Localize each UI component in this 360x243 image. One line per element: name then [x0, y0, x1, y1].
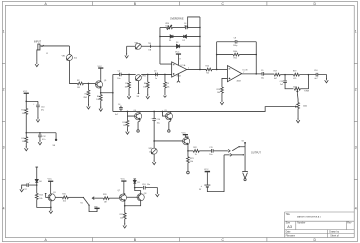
- capacitor C18: [135, 186, 145, 190]
- wire Q7 emitter: [124, 202, 126, 206]
- transistor Q6: [183, 137, 190, 146]
- svg-text:1: 1: [355, 30, 357, 34]
- svg-text:7k5: 7k5: [206, 72, 209, 74]
- svg-text:10u: 10u: [157, 122, 160, 124]
- ground R15: [24, 146, 28, 151]
- svg-text:47p: 47p: [184, 25, 187, 27]
- pot P1 (input): [66, 54, 72, 60]
- svg-text:S1: S1: [80, 203, 82, 205]
- wire R22 to C11: [199, 150, 211, 152]
- wire Q3 to R25: [55, 196, 62, 198]
- svg-text:C8: C8: [234, 37, 236, 39]
- svg-text:C3: C3: [154, 70, 156, 72]
- svg-text:C2: C2: [118, 70, 120, 72]
- svg-text:Number: Number: [297, 222, 305, 225]
- svg-text:4n7: 4n7: [314, 78, 317, 80]
- wire arrow to R26: [93, 197, 103, 199]
- ground R27: [123, 223, 127, 228]
- op-amp IC1B: [227, 66, 241, 82]
- svg-text:D2: D2: [182, 40, 184, 42]
- pot P2: [135, 75, 141, 81]
- title block: [285, 212, 355, 238]
- svg-text:C14: C14: [157, 119, 160, 121]
- wire C9 to R17: [264, 73, 275, 76]
- svg-text:R19: R19: [293, 71, 296, 73]
- wire VCC to collector: [100, 68, 102, 80]
- svg-text:Date: Date: [286, 231, 292, 234]
- svg-text:VCC: VCC: [121, 178, 126, 180]
- wire IC1B output: [242, 73, 262, 75]
- transistor Q1: [95, 80, 102, 89]
- VB end R9: [163, 96, 166, 98]
- ground input jack: [37, 50, 38, 62]
- svg-text:4u7: 4u7: [115, 114, 118, 116]
- svg-text:10n: 10n: [147, 184, 150, 186]
- svg-text:Q1: Q1: [104, 80, 107, 82]
- feedback rail right: [199, 17, 201, 69]
- resistor R16: [221, 87, 224, 93]
- svg-text:C16: C16: [314, 70, 317, 72]
- svg-text:R4: R4: [97, 96, 99, 98]
- svg-text:3: 3: [3, 146, 5, 150]
- svg-text:C4: C4: [118, 104, 120, 106]
- svg-text:47u: 47u: [42, 139, 45, 141]
- svg-text:S2: S2: [241, 140, 243, 142]
- resistor R15: [25, 137, 28, 143]
- svg-text:1u: 1u: [155, 78, 157, 80]
- svg-text:10k: 10k: [217, 92, 220, 94]
- wire R10 to IC1B: [212, 68, 228, 70]
- switch S2: [232, 147, 238, 151]
- svg-text:R22: R22: [193, 147, 196, 149]
- svg-text:VCC: VCC: [47, 179, 52, 181]
- svg-text:D3: D3: [176, 42, 178, 44]
- svg-text:4k7: 4k7: [274, 78, 277, 80]
- svg-text:Q4: Q4: [133, 110, 136, 112]
- wire input to pot: [42, 46, 69, 55]
- capacitor C13 node branch: [284, 75, 286, 81]
- wire D6 down: [36, 182, 38, 193]
- capacitor C14: [153, 111, 155, 118]
- svg-text:VR1: VR1: [62, 56, 66, 58]
- svg-text:C13: C13: [280, 81, 283, 83]
- wire IC1A output: [187, 68, 206, 70]
- resistor R9: [164, 74, 166, 82]
- resistor R2: [77, 82, 83, 85]
- ground R3: [87, 104, 91, 109]
- wire +input IC1B down: [222, 78, 228, 87]
- ground R8: [146, 94, 150, 99]
- svg-text:OUTPUT: OUTPUT: [251, 151, 261, 154]
- diode D6: [35, 179, 38, 182]
- resistor R4: [100, 93, 102, 95]
- resistor R3: [87, 83, 89, 90]
- capacitor C3: [156, 73, 158, 77]
- wire to Q3: [50, 201, 52, 208]
- svg-text:10u: 10u: [209, 154, 212, 156]
- pot VOLUME: [297, 103, 300, 109]
- wire emitter row to Q8: [125, 201, 141, 206]
- wire to VB node: [25, 114, 27, 136]
- arrow to switch: [228, 149, 230, 152]
- svg-text:D6: D6: [39, 181, 41, 183]
- wire inv input: [160, 63, 172, 65]
- svg-text:VR2: VR2: [142, 76, 146, 78]
- diode D5: [133, 179, 136, 181]
- wire wiper link top: [188, 17, 200, 28]
- ground corner: [50, 207, 52, 209]
- transistor Q3: [48, 194, 55, 201]
- wire T1 emitter: [138, 121, 140, 130]
- svg-text:R3: R3: [85, 94, 87, 96]
- svg-text:8: 8: [179, 58, 180, 60]
- diode D2: [173, 35, 200, 38]
- svg-text:C17: C17: [23, 189, 26, 191]
- resistor R23: [187, 151, 189, 157]
- svg-text:10k: 10k: [39, 198, 42, 200]
- svg-text:Drawn by: Drawn by: [329, 231, 340, 234]
- resistor R10: [206, 68, 212, 71]
- tick right: [354, 63, 357, 65]
- svg-text:R7: R7: [125, 83, 127, 85]
- svg-text:Q3: Q3: [53, 192, 56, 194]
- svg-text:D1: D1: [169, 40, 171, 42]
- svg-text:Filename: Filename: [286, 236, 296, 238]
- wire battery loop: [207, 155, 224, 192]
- svg-text:R2: R2: [77, 80, 79, 82]
- svg-text:3: 3: [355, 146, 357, 150]
- wire tone wiper to volume: [296, 93, 299, 99]
- VB net terminal: [55, 133, 57, 139]
- op-amp IC1A: [172, 62, 187, 77]
- wire tone right leg: [300, 75, 308, 89]
- capacitor C4: [172, 26, 185, 28]
- switch S1: [83, 197, 84, 198]
- svg-text:VCC: VCC: [23, 91, 28, 93]
- test point TP1: [149, 45, 151, 48]
- wire pot to base row: [69, 60, 77, 83]
- pot P5: [153, 141, 155, 148]
- svg-text:Q7: Q7: [117, 190, 120, 192]
- svg-text:10u: 10u: [261, 78, 264, 80]
- capacitor C8: [217, 41, 236, 43]
- capacitor C2: [119, 73, 121, 77]
- svg-text:VR3: VR3: [134, 42, 138, 44]
- tick top B/C: [92, 2, 94, 6]
- svg-text:VCC: VCC: [204, 169, 209, 171]
- svg-text:OVERDRIVE: OVERDRIVE: [170, 18, 184, 20]
- svg-text:Q5: Q5: [164, 110, 167, 112]
- svg-text:Title: Title: [286, 213, 291, 216]
- svg-text:47u: 47u: [41, 110, 44, 112]
- svg-text:INPUT: INPUT: [34, 40, 42, 43]
- resistor R25: [62, 196, 68, 199]
- rail IC1B left: [216, 42, 218, 70]
- svg-text:R16: R16: [217, 89, 220, 91]
- svg-text:2: 2: [355, 88, 357, 92]
- svg-text:R13: R13: [122, 122, 125, 124]
- wire C16 to ground: [318, 75, 327, 79]
- wire to Q6 base: [154, 140, 182, 142]
- svg-text:R9: R9: [166, 83, 168, 85]
- svg-text:10k: 10k: [166, 86, 169, 88]
- tick left: [2, 63, 5, 65]
- svg-text:D5: D5: [137, 182, 139, 184]
- svg-text:10k: 10k: [125, 86, 128, 88]
- svg-text:10k: 10k: [22, 141, 25, 143]
- svg-text:TM: TM: [148, 43, 151, 45]
- svg-text:500k: 500k: [165, 25, 169, 27]
- pot TONE: [294, 87, 300, 90]
- resistor R7: [128, 74, 130, 82]
- wire vertical trunk: [112, 74, 114, 111]
- terminal T2: [168, 130, 170, 132]
- wire R2 to Q1 base: [83, 82, 95, 84]
- svg-text:1M: 1M: [123, 125, 126, 127]
- arrow into S1: [92, 197, 94, 200]
- wire R25 to S1: [68, 196, 83, 198]
- capacitor C12: [39, 133, 41, 135]
- wire Q6 emitter: [187, 146, 189, 151]
- resistor R26: [103, 197, 109, 200]
- svg-text:C12: C12: [42, 136, 45, 138]
- svg-text:100p: 100p: [233, 45, 237, 47]
- wire T2 collector: [170, 110, 172, 112]
- wire R24 to corner: [37, 199, 51, 207]
- ground R4: [99, 106, 103, 111]
- wire Q7 to Q8 base: [127, 196, 138, 198]
- wire +input row: [113, 73, 120, 75]
- svg-text:4: 4: [3, 207, 5, 211]
- transistor Q7: [119, 193, 126, 202]
- wire R17 to R19: [280, 74, 293, 76]
- wire R19 to C10b: [299, 74, 316, 76]
- resistor R22: [188, 150, 193, 152]
- VCC supply bar: [24, 92, 29, 94]
- wire C18 to ground: [145, 188, 157, 193]
- rail IC1B right: [255, 42, 257, 74]
- ground stub left: [126, 46, 128, 54]
- wire D5 to Q8: [135, 183, 141, 193]
- wire T2 emitter: [169, 121, 171, 130]
- svg-text:10k: 10k: [149, 151, 152, 153]
- svg-text:C11: C11: [209, 147, 212, 149]
- svg-text:10k: 10k: [143, 86, 146, 88]
- svg-text:4558: 4558: [236, 80, 240, 82]
- svg-text:C10: C10: [41, 106, 44, 108]
- node rail1: [159, 45, 161, 47]
- wire volume tap: [113, 107, 295, 112]
- wire R26 to Q7: [109, 197, 119, 199]
- svg-text:1M: 1M: [77, 87, 80, 89]
- resistor R14: [25, 108, 28, 114]
- capacitor C4b on trunk: [120, 110, 122, 112]
- svg-text:R11: R11: [234, 58, 237, 60]
- pot P3: [135, 43, 141, 49]
- svg-text:VR5: VR5: [148, 148, 152, 150]
- node T1 branch: [127, 111, 129, 113]
- svg-text:2n2: 2n2: [280, 84, 283, 86]
- transistor T1: [135, 112, 142, 121]
- capacitor C16: [316, 73, 318, 77]
- svg-text:R14: R14: [21, 110, 24, 112]
- svg-text:10k: 10k: [96, 99, 99, 101]
- ground P5: [152, 160, 156, 165]
- svg-text:100k: 100k: [233, 51, 237, 53]
- ground R13: [126, 129, 130, 134]
- ground C12: [38, 140, 42, 145]
- gate stub Q3: [45, 193, 48, 197]
- wire S1 to gnd bar: [89, 205, 97, 211]
- svg-text:10k: 10k: [22, 113, 25, 115]
- wire inverting row: [127, 45, 177, 47]
- node T2 branch: [162, 111, 164, 113]
- svg-text:R23: R23: [190, 158, 193, 160]
- resistor R17: [274, 73, 280, 76]
- wire emitter to node: [101, 89, 113, 93]
- ground R16: [220, 100, 224, 105]
- diode D1: [160, 35, 173, 38]
- svg-text:Q8: Q8: [144, 193, 147, 195]
- wire to C10: [26, 101, 38, 104]
- svg-text:10k: 10k: [190, 161, 193, 163]
- svg-text:2M2: 2M2: [83, 97, 87, 99]
- wire ring row: [224, 154, 230, 156]
- svg-text:10k: 10k: [63, 201, 66, 203]
- svg-text:C18: C18: [142, 184, 145, 186]
- svg-text:4: 4: [355, 207, 357, 211]
- feedback rail left: [159, 27, 161, 64]
- svg-text:1k: 1k: [195, 154, 197, 156]
- svg-text:R27: R27: [120, 214, 123, 216]
- ground C16: [325, 78, 329, 83]
- svg-text:J1: J1: [46, 53, 48, 55]
- svg-text:R26: R26: [103, 194, 106, 196]
- svg-text:R15: R15: [21, 138, 24, 140]
- ground C18: [156, 192, 160, 197]
- terminal T1: [137, 130, 139, 132]
- capacitor C9: [262, 72, 264, 76]
- svg-text:1: 1: [3, 30, 5, 34]
- wire supply stem: [25, 93, 27, 108]
- output jack J2: [242, 171, 248, 178]
- svg-text:R8: R8: [144, 83, 146, 85]
- svg-text:TONE: TONE: [304, 90, 310, 92]
- svg-text:R24: R24: [39, 195, 42, 197]
- svg-text:R10: R10: [205, 66, 208, 68]
- resistor R11: [217, 54, 234, 56]
- battery B1: [204, 184, 210, 186]
- svg-text:2: 2: [3, 88, 5, 92]
- svg-text:R25: R25: [62, 193, 65, 195]
- resistor R24: [35, 193, 38, 199]
- ground VOLUME: [296, 118, 300, 123]
- transistor T2: [165, 112, 172, 121]
- svg-text:10n: 10n: [117, 78, 120, 80]
- svg-text:VCC: VCC: [175, 52, 180, 54]
- tick bottom: [92, 238, 94, 242]
- svg-text:MARSH OVERDRIVE A 1: MARSH OVERDRIVE A 1: [297, 215, 322, 218]
- svg-text:R17: R17: [274, 71, 277, 73]
- capacitor C11: [211, 149, 213, 153]
- svg-text:100k: 100k: [293, 86, 297, 88]
- ground R7: [127, 94, 131, 99]
- svg-text:1M: 1M: [104, 201, 107, 203]
- resistor R19: [293, 73, 299, 76]
- diode D3: [176, 44, 179, 48]
- svg-text:Sheet of: Sheet of: [330, 235, 339, 238]
- input jack J1: [38, 44, 44, 50]
- svg-text:C9: C9: [261, 70, 263, 72]
- transistor Q8: [137, 194, 144, 201]
- node base Q6 row: [153, 140, 155, 142]
- svg-text:A3: A3: [287, 225, 292, 229]
- capacitor C17: [29, 184, 37, 186]
- wire C17 to ground: [22, 185, 27, 188]
- wire C2 to opamp: [121, 73, 172, 75]
- wire C11 to switch: [213, 150, 228, 152]
- resistor R13: [126, 116, 128, 120]
- wire VB rail: [26, 132, 56, 134]
- supply tick bottom left: [35, 167, 38, 179]
- svg-text:10k: 10k: [120, 217, 123, 219]
- svg-text:10k: 10k: [74, 58, 77, 60]
- svg-text:47k: 47k: [293, 78, 296, 80]
- ground C10: [36, 117, 40, 122]
- svg-text:IC1 A: IC1 A: [181, 64, 186, 67]
- node C14: [153, 111, 155, 113]
- resistor R27: [124, 206, 126, 213]
- wire bar to battery: [206, 172, 208, 185]
- resistor R8: [147, 74, 149, 82]
- wire T1 collector: [139, 110, 141, 112]
- svg-text:100k: 100k: [303, 105, 307, 107]
- pot VR4 feedback: [160, 26, 167, 28]
- ground bar: [94, 207, 99, 209]
- node base Q1: [88, 83, 90, 85]
- terminal R23: [187, 171, 190, 174]
- ground C17: [20, 187, 24, 192]
- pin 4 VB: [177, 74, 179, 81]
